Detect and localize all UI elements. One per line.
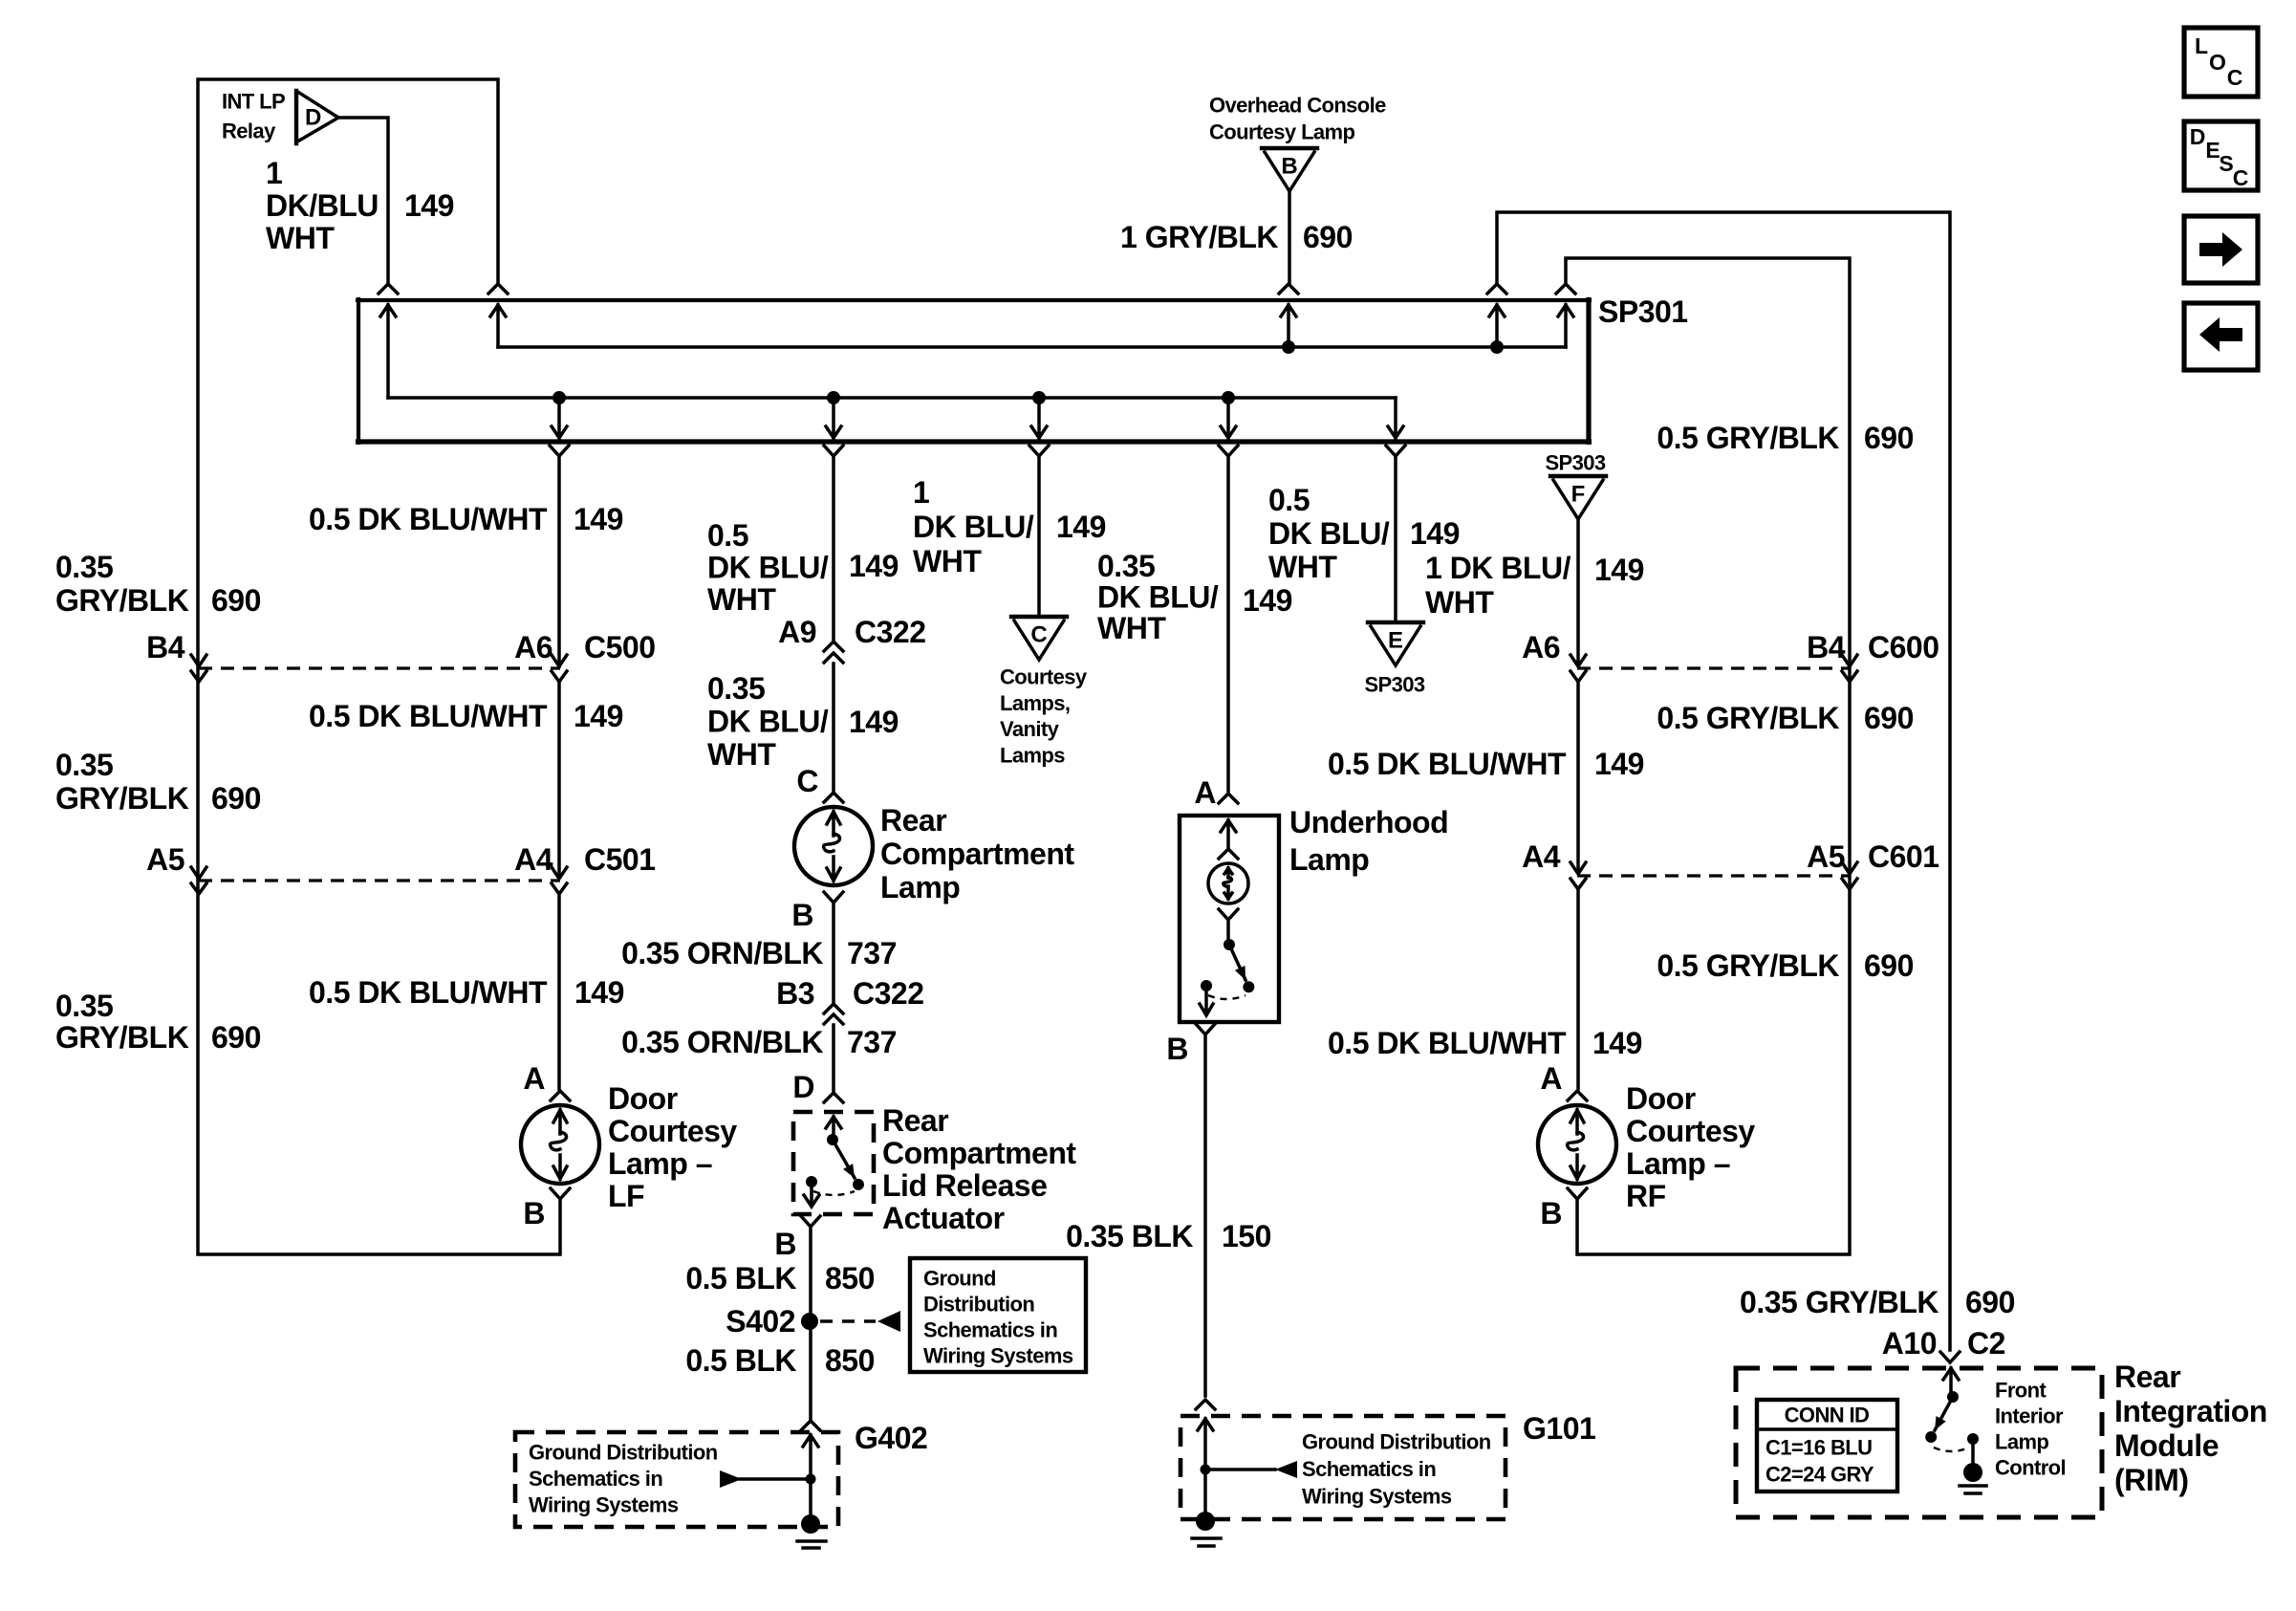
svg-text:A: A <box>1540 1061 1562 1096</box>
svg-text:Rear: Rear <box>880 803 946 838</box>
connector C601 dashed line <box>1577 874 1851 877</box>
table CONN ID <box>1757 1400 1897 1491</box>
wire - from relay D to splice pack SP301 <box>338 118 388 284</box>
svg-text:DK/BLU: DK/BLU <box>266 188 379 223</box>
svg-text:GRY/BLK: GRY/BLK <box>55 781 189 816</box>
node - junction dots on upper internal bus <box>1282 340 1295 354</box>
svg-text:149: 149 <box>574 975 624 1010</box>
svg-text:A4: A4 <box>514 842 553 877</box>
svg-text:149: 149 <box>849 549 899 583</box>
svg-text:149: 149 <box>1243 583 1292 618</box>
svg-text:737: 737 <box>847 1025 897 1059</box>
svg-text:DK BLU/: DK BLU/ <box>913 510 1034 544</box>
wire - SP301 internal bus upper <box>498 345 1566 349</box>
wire - SP301 to C500 (0.5 DK BLU/WHT) <box>557 456 561 666</box>
svg-text:C: C <box>2227 65 2243 90</box>
svg-text:690: 690 <box>211 583 261 618</box>
connector triangle C - Courtesy Lamps Vanity Lamps <box>1011 615 1067 619</box>
svg-text:149: 149 <box>404 188 454 223</box>
svg-text:WHT: WHT <box>266 221 335 255</box>
svg-text:Lamp: Lamp <box>1289 842 1369 877</box>
svg-text:0.5 DK BLU/WHT: 0.5 DK BLU/WHT <box>309 502 548 536</box>
svg-text:Courtesy: Courtesy <box>1626 1114 1755 1148</box>
svg-text:0.5: 0.5 <box>1268 483 1310 517</box>
svg-text:Control: Control <box>1995 1456 2066 1480</box>
svg-text:0.35: 0.35 <box>55 989 113 1023</box>
svg-text:Lamp –: Lamp – <box>608 1146 712 1181</box>
svg-text:1 GRY/BLK: 1 GRY/BLK <box>1120 220 1278 254</box>
relay INT LP Relay connector triangle D <box>294 91 298 143</box>
svg-text:Door: Door <box>1626 1081 1696 1116</box>
svg-text:150: 150 <box>1222 1219 1271 1253</box>
wire - SP301 internal bus lower <box>388 396 1396 400</box>
splice SP303 triangle E <box>1368 620 1423 624</box>
node - SP301 bottom edge exits (forks) <box>550 446 569 456</box>
svg-text:B: B <box>774 1227 796 1261</box>
svg-text:Integration: Integration <box>2114 1394 2267 1428</box>
svg-text:C2: C2 <box>1967 1326 2005 1361</box>
wire - rear compartment lamp B to C322 (0.35 ORN/BLK) <box>832 903 835 1003</box>
svg-text:A5: A5 <box>1807 839 1845 874</box>
svg-text:Wiring Systems: Wiring Systems <box>529 1493 679 1517</box>
wire - C601 to door courtesy lamp RF (0.5 DK BLU/WHT) <box>1576 887 1580 1089</box>
switch - Front Interior Lamp Control inside RIM <box>1943 1368 1959 1397</box>
svg-text:Ground Distribution: Ground Distribution <box>529 1441 718 1465</box>
svg-text:A9: A9 <box>778 615 816 649</box>
svg-text:B4: B4 <box>1807 630 1846 664</box>
icon LOC box <box>2184 28 2258 97</box>
svg-text:149: 149 <box>1594 747 1644 781</box>
svg-text:(RIM): (RIM) <box>2114 1463 2188 1497</box>
svg-text:SP303: SP303 <box>1545 451 1605 475</box>
svg-text:850: 850 <box>825 1343 875 1378</box>
svg-text:0.5 BLK: 0.5 BLK <box>685 1261 796 1295</box>
svg-text:WHT: WHT <box>913 544 982 578</box>
svg-text:690: 690 <box>1303 220 1353 254</box>
svg-text:Compartment: Compartment <box>882 1136 1076 1170</box>
icon right arrow box <box>2184 216 2258 283</box>
svg-text:C322: C322 <box>855 615 926 649</box>
icon DESC box <box>2184 121 2258 190</box>
svg-text:149: 149 <box>574 502 623 536</box>
svg-text:C: C <box>1030 622 1047 648</box>
svg-text:0.5 GRY/BLK: 0.5 GRY/BLK <box>1657 701 1839 735</box>
svg-text:690: 690 <box>211 1020 261 1055</box>
svg-text:0.5 GRY/BLK: 0.5 GRY/BLK <box>1657 421 1839 455</box>
switch inside underhood lamp <box>1224 939 1235 950</box>
wire - C600 to C601 (0.5 DK BLU/WHT) <box>1576 681 1580 872</box>
wire - SP301 to right loop (0.5 GRY/BLK) via top loop <box>1566 258 1850 1254</box>
wire - SP301 to right column (0.35 GRY/BLK) via top loop <box>1497 212 1950 1350</box>
svg-text:149: 149 <box>1592 1026 1642 1060</box>
svg-text:A6: A6 <box>1522 630 1560 664</box>
svg-text:Schematics in: Schematics in <box>1302 1457 1436 1481</box>
svg-text:CONN ID: CONN ID <box>1785 1404 1870 1427</box>
svg-text:Courtesy: Courtesy <box>608 1114 737 1148</box>
svg-text:C322: C322 <box>853 976 924 1011</box>
svg-text:Courtesy Lamp: Courtesy Lamp <box>1209 120 1355 144</box>
svg-text:E: E <box>1388 628 1403 654</box>
svg-text:B: B <box>791 898 813 932</box>
connector C501 dashed line <box>199 879 560 882</box>
svg-text:0.5 DK BLU/WHT: 0.5 DK BLU/WHT <box>309 975 548 1010</box>
svg-text:149: 149 <box>1410 516 1460 551</box>
svg-text:Ground Distribution: Ground Distribution <box>1302 1430 1491 1454</box>
wire - C322 to lid release actuator (0.35 ORN/BLK) <box>832 1025 835 1091</box>
svg-text:0.35 ORN/BLK: 0.35 ORN/BLK <box>621 1025 823 1059</box>
svg-text:0.5 BLK: 0.5 BLK <box>685 1343 796 1378</box>
svg-text:Front: Front <box>1995 1379 2047 1403</box>
svg-text:690: 690 <box>1864 948 1914 983</box>
svg-text:D: D <box>305 105 321 131</box>
svg-text:LF: LF <box>608 1179 644 1213</box>
svg-text:A: A <box>523 1061 545 1096</box>
svg-text:DK BLU/: DK BLU/ <box>707 551 829 585</box>
svg-text:Wiring Systems: Wiring Systems <box>923 1344 1073 1368</box>
svg-text:149: 149 <box>1056 510 1106 544</box>
svg-text:GRY/BLK: GRY/BLK <box>55 583 189 618</box>
node - junction dots on lower internal bus <box>552 391 566 404</box>
svg-text:D: D <box>792 1070 814 1104</box>
note box - Ground Distribution Schematics in Wiring Systems (S402) <box>910 1258 1086 1372</box>
svg-text:SP301: SP301 <box>1598 294 1688 329</box>
svg-text:0.35 BLK: 0.35 BLK <box>1066 1219 1193 1253</box>
svg-text:Rear: Rear <box>882 1103 948 1138</box>
connector C600 dashed line <box>1577 666 1851 669</box>
svg-text:WHT: WHT <box>707 582 776 617</box>
svg-text:A5: A5 <box>146 842 184 877</box>
wire - overhead console lamp to SP301 <box>1288 191 1291 284</box>
module - Rear Integration Module (RIM) dashed box <box>1736 1368 2102 1517</box>
svg-text:0.35: 0.35 <box>707 671 765 706</box>
svg-text:WHT: WHT <box>1268 550 1337 584</box>
svg-text:0.35: 0.35 <box>55 550 113 584</box>
svg-text:0.5 DK BLU/WHT: 0.5 DK BLU/WHT <box>309 699 548 733</box>
svg-text:149: 149 <box>574 699 623 733</box>
svg-text:C500: C500 <box>584 630 656 664</box>
svg-text:737: 737 <box>847 936 897 970</box>
svg-text:C: C <box>796 764 818 798</box>
svg-text:WHT: WHT <box>1097 611 1166 645</box>
svg-text:C601: C601 <box>1868 839 1939 874</box>
svg-text:G402: G402 <box>855 1421 927 1455</box>
svg-text:Underhood: Underhood <box>1289 805 1448 839</box>
svg-text:Lamps: Lamps <box>1000 743 1065 767</box>
svg-text:850: 850 <box>825 1261 875 1295</box>
ground G402 <box>801 1421 820 1430</box>
svg-text:S402: S402 <box>726 1304 795 1339</box>
svg-text:A10: A10 <box>1882 1326 1937 1361</box>
svg-text:0.35: 0.35 <box>55 748 113 782</box>
svg-text:C600: C600 <box>1868 630 1939 664</box>
svg-text:DK BLU/: DK BLU/ <box>707 705 829 739</box>
svg-text:B4: B4 <box>146 630 185 664</box>
svg-text:Actuator: Actuator <box>882 1201 1005 1235</box>
svg-text:Schematics in: Schematics in <box>923 1318 1057 1342</box>
svg-text:690: 690 <box>1864 701 1914 735</box>
wire - SP301 to SP303 triangle E (0.5 DK BLU/WHT) <box>1394 456 1397 622</box>
svg-text:1: 1 <box>266 156 282 190</box>
svg-text:0.35 GRY/BLK: 0.35 GRY/BLK <box>1740 1285 1939 1319</box>
node - SP301 internal exit arrows <box>552 398 567 438</box>
svg-text:Relay: Relay <box>222 120 276 143</box>
svg-text:C: C <box>2233 165 2249 190</box>
switch inside lid release actuator <box>827 1134 838 1145</box>
wire - C500 to C501 (0.5 DK BLU/WHT) <box>557 682 561 877</box>
svg-text:DK BLU/: DK BLU/ <box>1097 580 1219 615</box>
svg-text:B: B <box>523 1196 545 1230</box>
svg-text:Lamps,: Lamps, <box>1000 691 1070 715</box>
icon left arrow box <box>2184 303 2258 370</box>
svg-text:G101: G101 <box>1523 1411 1595 1446</box>
svg-text:Wiring Systems: Wiring Systems <box>1302 1485 1452 1509</box>
svg-text:RF: RF <box>1626 1179 1666 1213</box>
svg-text:WHT: WHT <box>707 737 776 772</box>
svg-text:149: 149 <box>1594 553 1644 587</box>
svg-text:B: B <box>1540 1196 1562 1230</box>
svg-text:Lamp –: Lamp – <box>1626 1146 1730 1181</box>
svg-text:0.5 GRY/BLK: 0.5 GRY/BLK <box>1657 948 1839 983</box>
svg-text:F: F <box>1571 482 1586 508</box>
svg-text:0.5 DK BLU/WHT: 0.5 DK BLU/WHT <box>1328 1026 1567 1060</box>
svg-text:Lid Release: Lid Release <box>882 1168 1047 1203</box>
connector triangle B - Overhead Console Courtesy Lamp <box>1262 146 1317 150</box>
node - SP301 top edge entries (chevrons) <box>379 284 398 294</box>
svg-text:C1=16 BLU: C1=16 BLU <box>1765 1436 1872 1460</box>
svg-text:Courtesy: Courtesy <box>1000 665 1088 689</box>
svg-text:Vanity: Vanity <box>1000 717 1060 741</box>
splice pack SP301 box <box>356 298 1592 302</box>
svg-text:C2=24 GRY: C2=24 GRY <box>1765 1463 1874 1487</box>
wire - underhood lamp B to G101 (0.35 BLK) <box>1196 1024 1215 1034</box>
wire - left feed loop from INT LP Relay <box>198 79 560 1254</box>
svg-text:1 DK BLU/: 1 DK BLU/ <box>1425 551 1571 585</box>
svg-text:Lamp: Lamp <box>880 870 960 904</box>
svg-text:S: S <box>2219 151 2233 176</box>
svg-text:Compartment: Compartment <box>880 837 1074 871</box>
svg-text:Lamp: Lamp <box>1995 1430 2048 1454</box>
svg-text:0.5 DK BLU/WHT: 0.5 DK BLU/WHT <box>1328 747 1567 781</box>
wire - SP303 F to C600 (1 DK BLU/WHT) <box>1576 519 1580 665</box>
wire - C501 to door courtesy lamp LF (0.5 DK BLU/WHT) <box>557 894 561 1089</box>
wire - SP301 to underhood lamp (0.35 DK BLU/WHT) <box>1226 456 1230 792</box>
svg-text:A: A <box>1194 775 1216 810</box>
svg-text:1: 1 <box>913 475 929 510</box>
svg-text:B: B <box>1166 1032 1188 1066</box>
svg-text:0.5: 0.5 <box>707 518 748 553</box>
svg-text:B3: B3 <box>776 976 814 1011</box>
svg-text:Door: Door <box>608 1081 678 1116</box>
svg-text:SP303: SP303 <box>1364 673 1424 697</box>
svg-text:Schematics in: Schematics in <box>529 1467 662 1491</box>
svg-text:D: D <box>2190 124 2206 149</box>
svg-text:Overhead Console: Overhead Console <box>1209 94 1386 118</box>
svg-text:C501: C501 <box>584 842 656 877</box>
svg-text:L: L <box>2195 33 2208 58</box>
wire - actuator B to S402 (0.5 BLK) <box>801 1216 820 1227</box>
svg-text:DK BLU/: DK BLU/ <box>1268 516 1390 551</box>
svg-text:GRY/BLK: GRY/BLK <box>55 1020 189 1055</box>
svg-text:690: 690 <box>1965 1285 2015 1319</box>
node - SP301 internal feed arrows <box>380 305 396 398</box>
svg-text:Module: Module <box>2114 1428 2219 1463</box>
connector C500 dashed line <box>199 666 560 669</box>
svg-text:INT LP: INT LP <box>222 90 285 114</box>
ground G101 <box>1196 1400 1215 1409</box>
svg-text:690: 690 <box>211 781 261 816</box>
svg-text:Rear: Rear <box>2114 1360 2180 1394</box>
wire - SP301 to courtesy lamps triangle (1 DK BLU/WHT) <box>1037 456 1041 617</box>
wire - C322 to rear compartment lamp (0.35 DK BLU/WHT) <box>832 664 835 793</box>
svg-text:Ground: Ground <box>923 1267 996 1291</box>
svg-text:A4: A4 <box>1522 839 1561 874</box>
svg-text:Interior: Interior <box>1995 1404 2064 1428</box>
svg-text:690: 690 <box>1864 421 1914 455</box>
svg-text:Distribution: Distribution <box>923 1293 1034 1317</box>
svg-text:A6: A6 <box>514 630 552 664</box>
ground inside RIM <box>1963 1463 1982 1482</box>
wire - SP301 to C322 (0.5 DK BLU/WHT) <box>832 456 835 642</box>
svg-text:B: B <box>1281 154 1297 180</box>
svg-text:O: O <box>2209 50 2226 75</box>
svg-text:149: 149 <box>849 705 899 739</box>
svg-text:WHT: WHT <box>1425 585 1494 620</box>
svg-text:0.35: 0.35 <box>1097 549 1155 583</box>
svg-text:0.35 ORN/BLK: 0.35 ORN/BLK <box>621 936 823 970</box>
